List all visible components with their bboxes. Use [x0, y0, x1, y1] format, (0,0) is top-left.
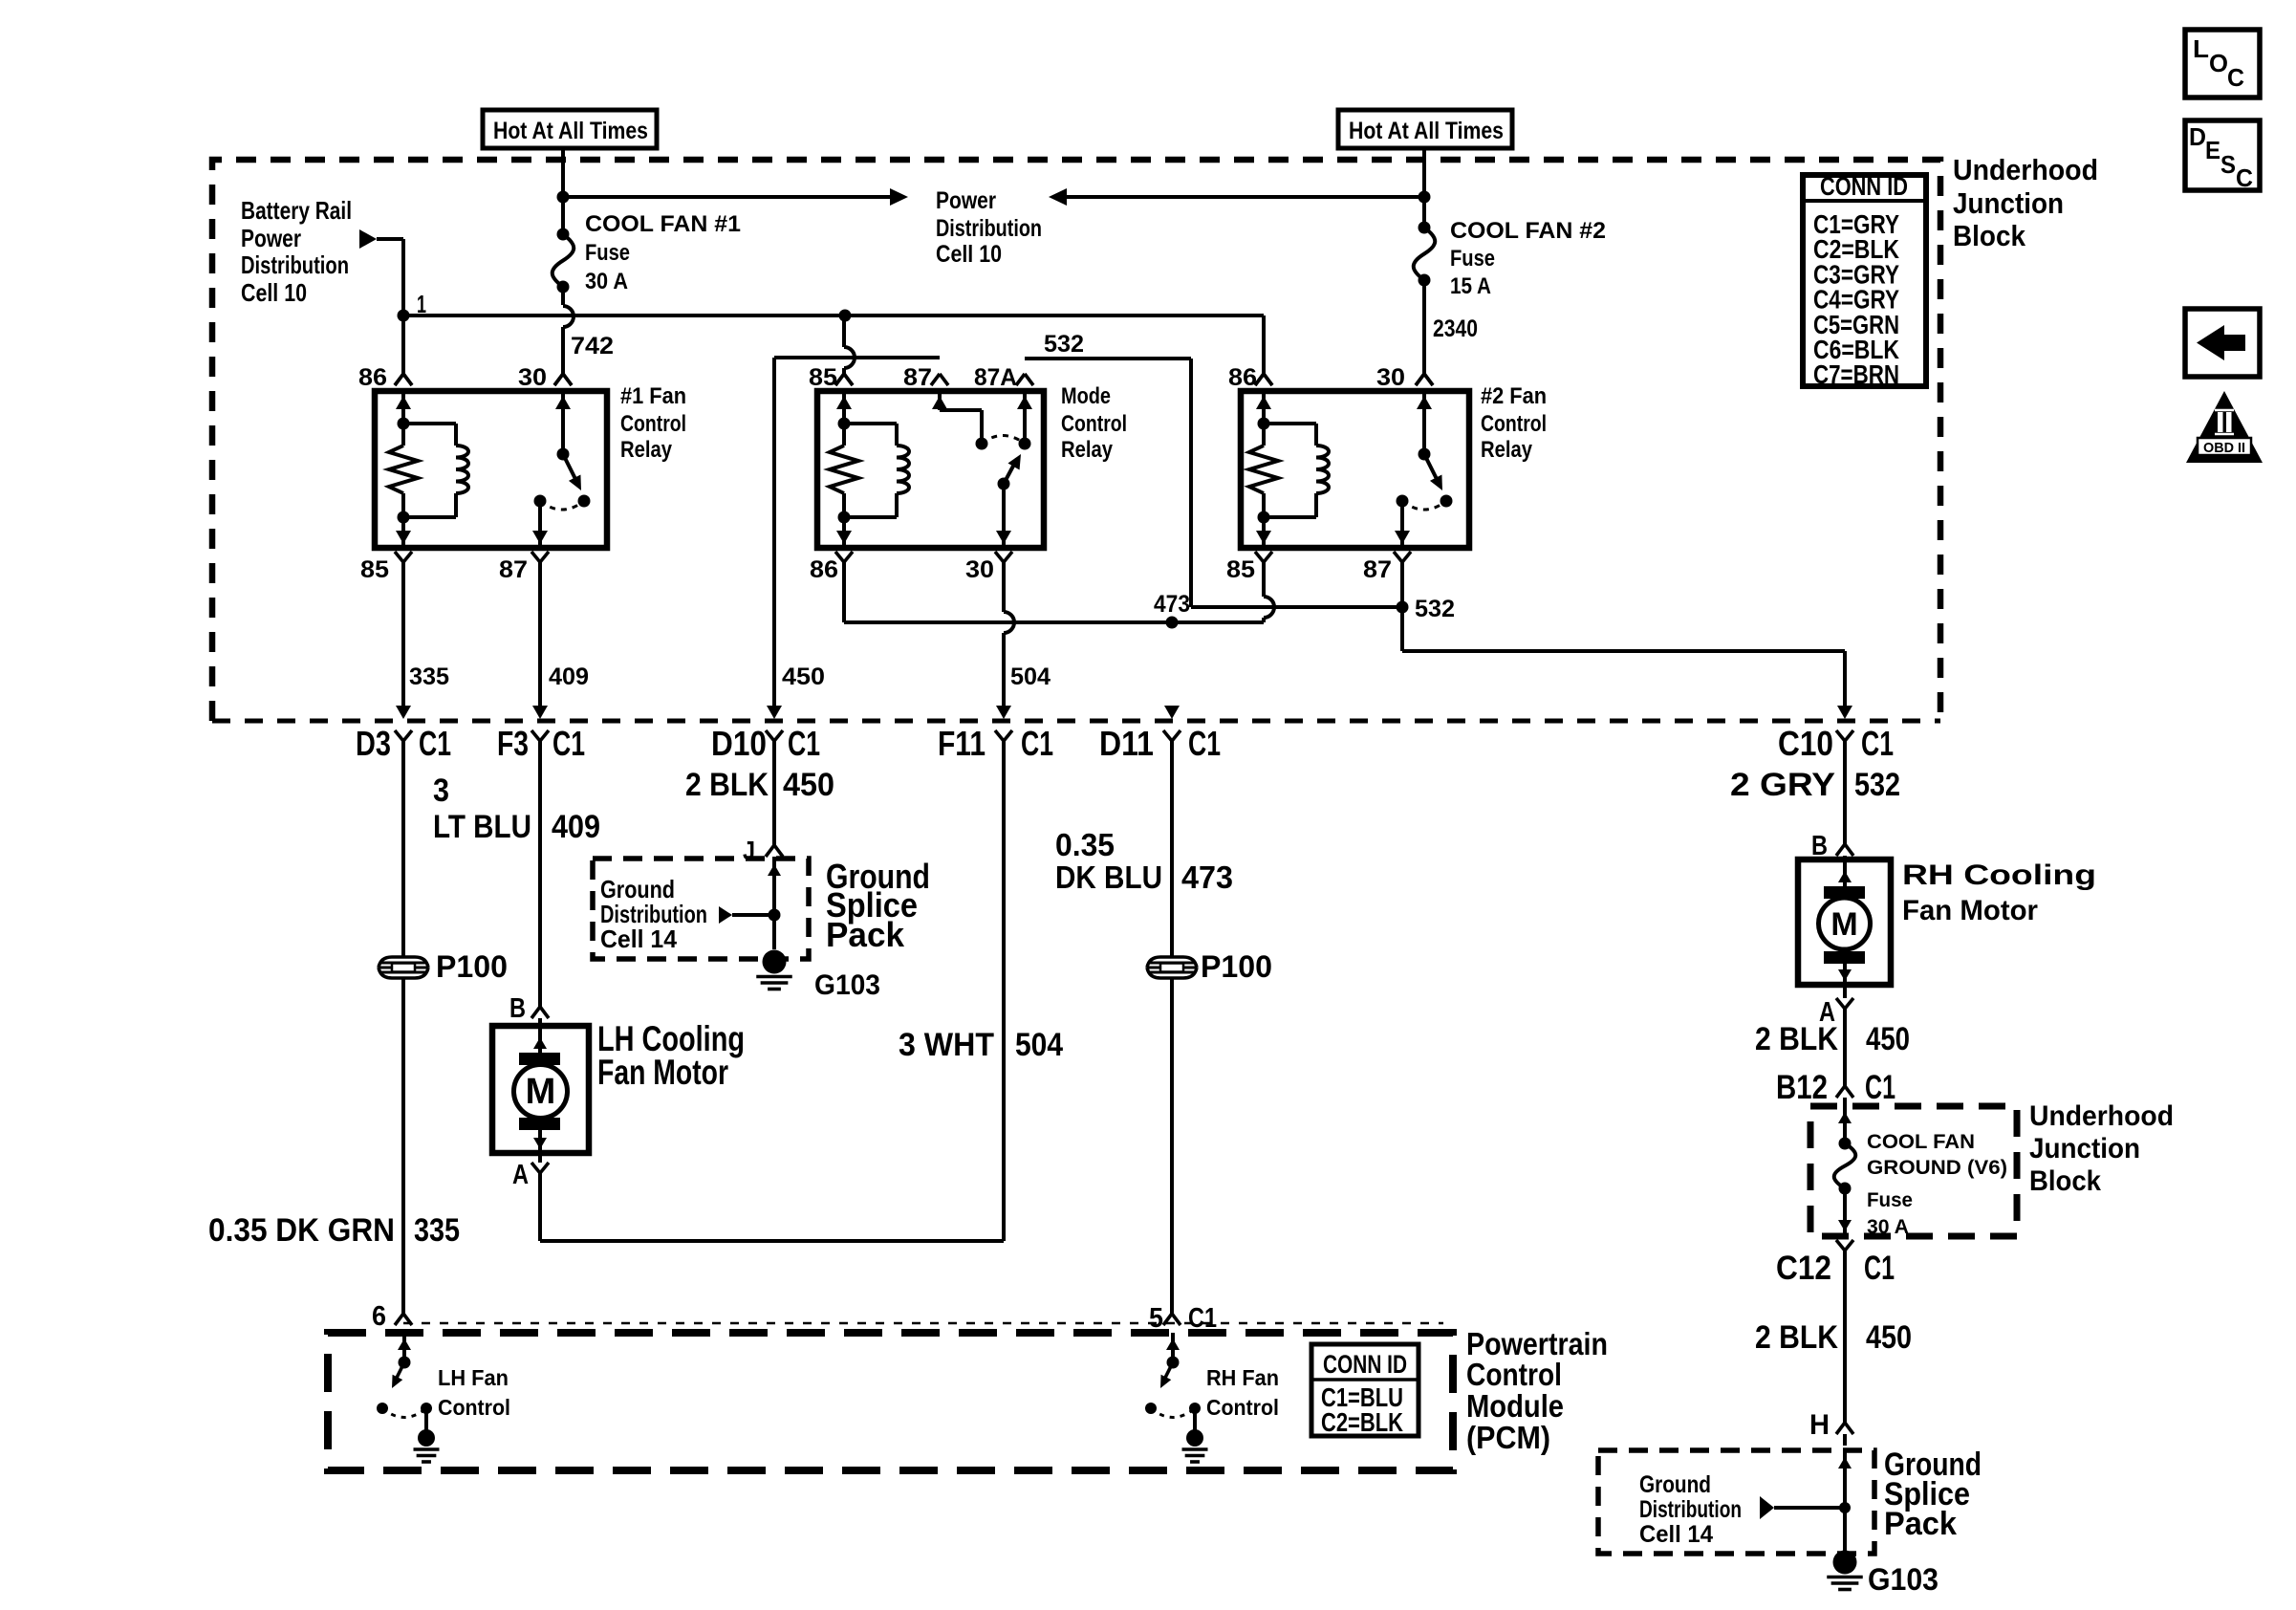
svg-text:COOL FAN #2: COOL FAN #2: [1450, 218, 1606, 244]
svg-text:(PCM): (PCM): [1466, 1420, 1550, 1455]
svg-text:C1: C1: [1861, 724, 1894, 763]
svg-text:473: 473: [1154, 591, 1190, 618]
svg-text:Module: Module: [1466, 1388, 1564, 1424]
svg-text:F3: F3: [497, 724, 529, 763]
svg-text:P100: P100: [1201, 949, 1272, 984]
svg-text:GROUND (V6): GROUND (V6): [1867, 1157, 2007, 1179]
svg-text:87A: 87A: [974, 364, 1017, 391]
svg-text:6: 6: [372, 1301, 386, 1332]
svg-text:Fan Motor: Fan Motor: [597, 1053, 728, 1092]
svg-text:30: 30: [1376, 364, 1405, 391]
svg-text:#1 Fan: #1 Fan: [620, 383, 686, 409]
svg-text:Cell 10: Cell 10: [241, 278, 307, 307]
svg-text:C2=BLK: C2=BLK: [1321, 1407, 1403, 1437]
svg-text:Junction: Junction: [1953, 186, 2064, 220]
svg-text:DK BLU: DK BLU: [1055, 859, 1162, 895]
svg-text:Control: Control: [1481, 411, 1547, 437]
svg-text:0.35 DK GRN: 0.35 DK GRN: [208, 1212, 395, 1249]
svg-text:C1: C1: [1188, 1303, 1217, 1334]
svg-text:742: 742: [571, 333, 614, 359]
svg-text:504: 504: [1015, 1027, 1063, 1063]
svg-text:Control: Control: [620, 411, 686, 437]
svg-text:30 A: 30 A: [1867, 1216, 1909, 1238]
svg-text:Cell 14: Cell 14: [1639, 1521, 1713, 1548]
svg-text:450: 450: [782, 664, 825, 690]
svg-text:E: E: [2205, 136, 2220, 164]
svg-text:85: 85: [809, 364, 837, 391]
svg-text:Junction: Junction: [2029, 1133, 2140, 1164]
svg-text:Battery Rail: Battery Rail: [241, 196, 352, 225]
svg-text:L: L: [2193, 34, 2209, 63]
svg-text:Fuse: Fuse: [1450, 246, 1495, 272]
svg-text:C1: C1: [1021, 724, 1053, 763]
svg-text:D10: D10: [711, 724, 767, 763]
svg-text:Control: Control: [1466, 1357, 1562, 1392]
svg-text:Relay: Relay: [1481, 437, 1533, 463]
svg-text:2 GRY: 2 GRY: [1730, 767, 1835, 803]
svg-text:CONN ID: CONN ID: [1820, 172, 1908, 201]
svg-text:Fan Motor: Fan Motor: [1902, 895, 2038, 926]
svg-text:Cell 10: Cell 10: [936, 241, 1002, 268]
svg-text:C: C: [2236, 163, 2253, 192]
svg-text:Pack: Pack: [1884, 1506, 1957, 1542]
svg-text:B: B: [509, 993, 526, 1024]
svg-text:85: 85: [1226, 556, 1255, 583]
svg-text:C7=BRN: C7=BRN: [1813, 359, 1899, 389]
svg-text:2 BLK: 2 BLK: [1755, 1319, 1838, 1356]
svg-text:532: 532: [1854, 767, 1900, 803]
svg-text:Relay: Relay: [620, 437, 673, 463]
svg-text:409: 409: [552, 809, 600, 845]
svg-text:Mode: Mode: [1061, 383, 1111, 409]
svg-text:COOL FAN #1: COOL FAN #1: [585, 211, 741, 237]
svg-text:450: 450: [1866, 1021, 1910, 1057]
svg-text:COOL FAN: COOL FAN: [1867, 1131, 1975, 1153]
svg-text:Power: Power: [936, 187, 996, 214]
svg-text:B12: B12: [1776, 1069, 1828, 1106]
svg-text:335: 335: [414, 1212, 460, 1249]
svg-text:OBD II: OBD II: [2203, 440, 2245, 456]
svg-text:409: 409: [549, 664, 589, 690]
svg-text:Distribution: Distribution: [241, 250, 349, 279]
svg-text:Distribution: Distribution: [936, 215, 1042, 242]
svg-text:473: 473: [1181, 859, 1233, 895]
svg-text:C12: C12: [1776, 1250, 1831, 1287]
svg-text:Fuse: Fuse: [1867, 1189, 1913, 1211]
svg-text:D11: D11: [1099, 724, 1154, 763]
svg-text:M: M: [526, 1072, 556, 1112]
svg-text:Block: Block: [1953, 219, 2026, 252]
svg-text:Pack: Pack: [826, 915, 905, 954]
svg-text:Relay: Relay: [1061, 437, 1114, 463]
svg-text:87: 87: [903, 364, 932, 391]
svg-text:86: 86: [1228, 364, 1257, 391]
svg-text:C1: C1: [1188, 724, 1221, 763]
svg-text:Control: Control: [438, 1395, 510, 1420]
svg-text:H: H: [1809, 1409, 1830, 1441]
svg-text:Fuse: Fuse: [585, 240, 630, 266]
svg-text:Control: Control: [1206, 1395, 1279, 1420]
svg-text:532: 532: [1044, 331, 1084, 358]
svg-text:F11: F11: [938, 724, 986, 763]
svg-text:504: 504: [1010, 664, 1051, 690]
svg-text:C1: C1: [1864, 1250, 1895, 1287]
svg-text:O: O: [2209, 49, 2228, 77]
svg-text:C1: C1: [788, 724, 820, 763]
svg-text:M: M: [1830, 906, 1857, 943]
svg-text:30: 30: [965, 556, 994, 583]
svg-text:3 WHT: 3 WHT: [899, 1027, 994, 1063]
svg-text:30 A: 30 A: [585, 269, 628, 294]
svg-text:30: 30: [518, 364, 547, 391]
svg-text:2340: 2340: [1433, 315, 1478, 342]
svg-text:3: 3: [433, 772, 449, 809]
svg-text:RH Fan: RH Fan: [1206, 1365, 1279, 1390]
svg-text:LH Fan: LH Fan: [438, 1365, 509, 1390]
svg-text:#2 Fan: #2 Fan: [1481, 383, 1547, 409]
svg-text:LT BLU: LT BLU: [433, 809, 531, 845]
svg-text:G103: G103: [1868, 1562, 1939, 1597]
svg-text:Hot At All Times: Hot At All Times: [1349, 118, 1504, 144]
svg-text:86: 86: [358, 364, 387, 391]
svg-text:2 BLK: 2 BLK: [1755, 1021, 1838, 1057]
svg-text:C10: C10: [1778, 724, 1833, 763]
svg-text:Control: Control: [1061, 411, 1127, 437]
svg-text:Hot At All Times: Hot At All Times: [493, 118, 648, 144]
svg-text:Ground: Ground: [1639, 1471, 1711, 1498]
svg-text:C1: C1: [552, 724, 585, 763]
svg-text:G103: G103: [814, 969, 880, 1001]
svg-text:86: 86: [810, 556, 838, 583]
svg-text:A: A: [512, 1160, 529, 1190]
svg-text:2 BLK: 2 BLK: [685, 767, 769, 803]
svg-text:87: 87: [499, 556, 528, 583]
svg-text:Underhood: Underhood: [1953, 153, 2098, 186]
svg-text:15 A: 15 A: [1450, 273, 1491, 299]
svg-text:450: 450: [783, 767, 834, 803]
svg-text:87: 87: [1363, 556, 1392, 583]
svg-text:335: 335: [409, 664, 449, 690]
svg-text:532: 532: [1415, 596, 1455, 622]
svg-text:C: C: [2227, 63, 2244, 92]
svg-text:450: 450: [1866, 1319, 1912, 1356]
svg-text:P100: P100: [436, 949, 508, 984]
svg-text:Block: Block: [2029, 1165, 2101, 1197]
svg-text:Distribution: Distribution: [1639, 1496, 1742, 1523]
svg-text:Power: Power: [241, 224, 301, 252]
svg-text:D3: D3: [356, 724, 391, 763]
svg-text:D: D: [2189, 122, 2206, 151]
svg-text:Underhood: Underhood: [2029, 1100, 2174, 1132]
svg-text:C1: C1: [419, 724, 451, 763]
svg-text:85: 85: [360, 556, 389, 583]
svg-text:C1: C1: [1865, 1069, 1895, 1106]
svg-text:S: S: [2220, 150, 2236, 179]
svg-text:RH Cooling: RH Cooling: [1902, 859, 2096, 891]
svg-text:CONN ID: CONN ID: [1323, 1350, 1407, 1379]
svg-text:0.35: 0.35: [1055, 827, 1115, 862]
svg-text:5: 5: [1149, 1303, 1163, 1334]
svg-text:Cell 14: Cell 14: [600, 925, 678, 953]
